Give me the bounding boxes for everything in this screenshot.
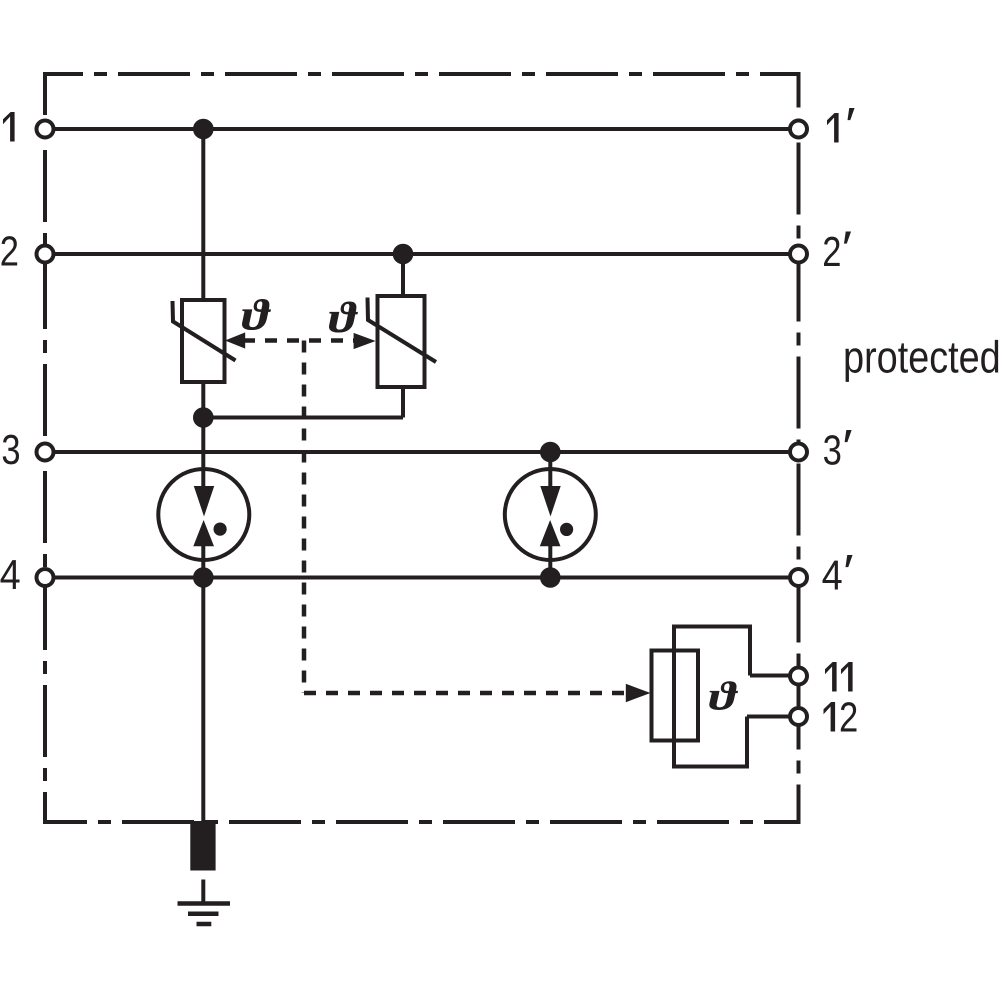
- junction node MV1-MV2: [193, 407, 214, 428]
- dashed link to remote contact: [304, 691, 628, 696]
- label thermal symbol theta remote contact: [709, 681, 738, 710]
- wire gas discharge tube F2 bottom lead to line 4: [548, 543, 552, 578]
- F2 bottom electrode arrow: [540, 520, 561, 546]
- terminal 2: [37, 246, 54, 263]
- stub to terminal 12: [747, 715, 790, 719]
- junction dot line4/F1: [193, 567, 214, 588]
- F1 bottom electrode arrow: [193, 520, 214, 546]
- label 3 prime: [824, 430, 852, 465]
- terminal 3: [37, 444, 54, 461]
- varistor MV1 body: [182, 300, 225, 382]
- wire from line1 down to varistor MV1: [201, 129, 205, 300]
- thermal disconnect dashed arrow between varistors: [243, 338, 356, 343]
- terminal 2': [790, 246, 807, 263]
- junction dot line2/MV2: [393, 244, 414, 265]
- wire varistor MV1 bottom to node: [201, 382, 205, 418]
- label 2 prime: [824, 232, 851, 266]
- terminal 11: [790, 668, 807, 685]
- wire line 4 down to isolating block: [201, 578, 205, 824]
- F2 top electrode arrow: [540, 486, 560, 517]
- label 12: [824, 702, 857, 732]
- wire gas discharge tube F2 top lead from line 3: [548, 452, 552, 489]
- junction dot line4/F2: [540, 567, 561, 588]
- terminal 1: [37, 121, 54, 138]
- stub to terminal 11: [750, 674, 790, 678]
- wire varistor MV2 bottom lead: [401, 387, 405, 418]
- wire connecting MV2 bottom to node below MV1: [203, 416, 403, 420]
- varistor MV1 diagonal stroke: [173, 301, 236, 361]
- F2 gas dot: [560, 523, 573, 536]
- thermal fuse body in remote contact: [652, 651, 699, 741]
- F1 top electrode arrow: [194, 486, 214, 517]
- wire line 1: [45, 127, 799, 131]
- arrowhead right toward MV2: [354, 333, 376, 349]
- label 1: [3, 112, 15, 142]
- F1 gas dot: [214, 523, 227, 536]
- label 11: [825, 662, 853, 692]
- wire node to gas discharge tube F1 top arrow: [201, 418, 205, 490]
- label protected: [846, 340, 999, 382]
- label 2: [2, 236, 18, 265]
- junction dot line1/MV1: [193, 119, 214, 140]
- varistor MV2 body: [378, 296, 425, 387]
- label 4: [1, 560, 20, 589]
- label 4 prime: [823, 555, 853, 589]
- junction dot line3/F2: [540, 442, 561, 463]
- terminal 3': [790, 444, 807, 461]
- label thermal symbol theta MV1: [242, 299, 271, 330]
- wire line 3: [45, 450, 799, 454]
- wire gas discharge tube F1 bottom to line 4: [201, 543, 205, 578]
- label 3: [3, 435, 19, 465]
- ground lead below black block: [201, 880, 205, 904]
- varistor MV2 diagonal stroke: [368, 298, 437, 363]
- gas discharge tube F2 circle: [505, 469, 596, 560]
- wire line 2: [45, 252, 799, 256]
- label 1 prime: [827, 108, 855, 142]
- terminal 1': [790, 121, 807, 138]
- arrowhead toward remote contact: [626, 684, 651, 702]
- label thermal symbol theta MV2: [329, 302, 358, 333]
- enclosure dash-dot border: [45, 74, 799, 822]
- ground bar 3: [197, 922, 212, 927]
- gas discharge tube F1 circle: [158, 469, 249, 560]
- wire line 4: [45, 576, 799, 580]
- ground bar 1: [178, 901, 231, 906]
- arrowhead left toward MV1: [225, 332, 245, 348]
- terminal 4: [37, 569, 54, 586]
- terminal 4': [790, 569, 807, 586]
- ground bar 2: [188, 912, 219, 917]
- remote signalling contact outline: [674, 627, 750, 767]
- wire from line2 down to varistor MV2: [401, 254, 405, 296]
- terminal 12: [790, 708, 807, 725]
- dashed link down from arrow: [302, 341, 307, 694]
- isolating spark gap black block: [190, 821, 215, 871]
